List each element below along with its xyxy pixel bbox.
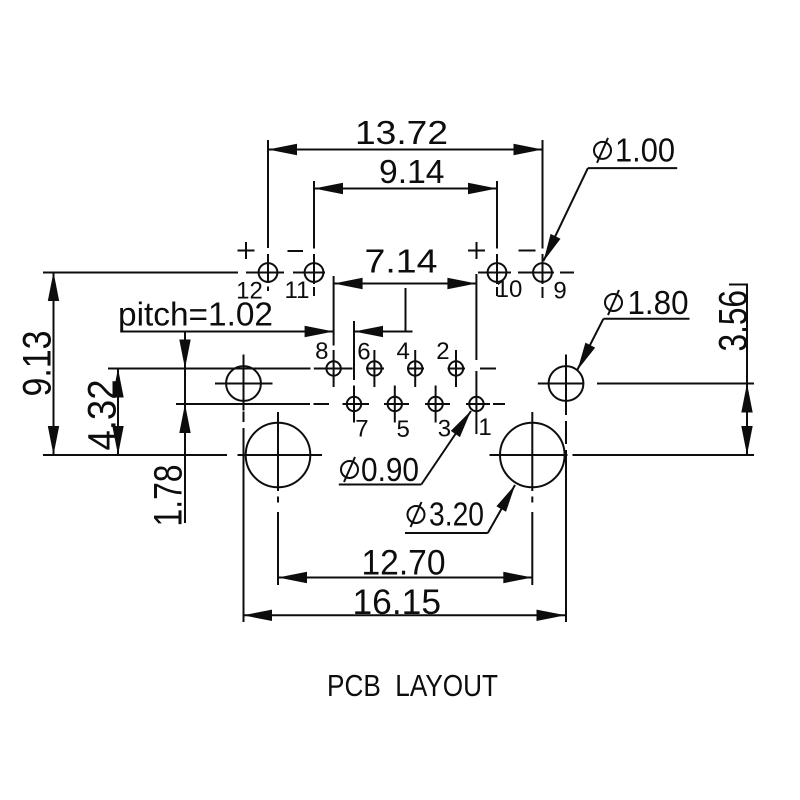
svg-text:13.72: 13.72 xyxy=(355,114,448,151)
svg-text:8: 8 xyxy=(315,338,328,365)
mounting hole right ø1.80 xyxy=(538,355,754,623)
svg-text:2: 2 xyxy=(436,338,449,365)
svg-text:5: 5 xyxy=(396,416,409,443)
pad 9 (hole ø1.00) xyxy=(533,263,552,282)
pad 5 (hole ø0.90) xyxy=(388,386,402,423)
dimension 9.14 (inner top pads) xyxy=(314,153,497,194)
svg-text:11: 11 xyxy=(285,277,310,304)
svg-text:4: 4 xyxy=(396,338,409,365)
centerline of mounting hole row (horizontal) xyxy=(43,454,754,456)
svg-text:3.20: 3.20 xyxy=(429,496,484,533)
leader label ø1.80 (side mounting holes) xyxy=(578,284,690,370)
svg-text:3: 3 xyxy=(438,415,451,442)
pad 7 (hole ø0.90) xyxy=(347,321,361,423)
pad 4 (hole ø0.90) xyxy=(408,350,422,387)
dimension 13.72 (outer top pads) xyxy=(268,114,543,155)
minus polarity mark at pad 9 xyxy=(519,250,536,252)
leader label ø0.90 (signal pads) xyxy=(339,411,471,488)
mounting hole right ø3.20 xyxy=(500,412,565,585)
pad number 7 xyxy=(355,415,368,442)
centerline pad 11 column / 9.14 extension xyxy=(313,181,315,296)
pad number 1 xyxy=(478,414,491,441)
svg-text:1.78: 1.78 xyxy=(147,465,191,527)
centerline pad 12 column / 13.72 extension xyxy=(267,140,269,291)
centerline of upper signal pad row / 4.32 extension xyxy=(108,368,496,370)
svg-text:1.80: 1.80 xyxy=(628,284,689,321)
svg-text:9.14: 9.14 xyxy=(379,153,445,190)
pad number 3 xyxy=(438,415,451,442)
connector line between 7.14 and pitch dimension xyxy=(405,288,407,332)
svg-text:7.14: 7.14 xyxy=(365,243,438,280)
pad 10 (hole ø1.00) xyxy=(488,263,507,282)
mounting hole left ø1.80 xyxy=(215,355,273,623)
svg-text:12.70: 12.70 xyxy=(362,544,446,583)
svg-text:7: 7 xyxy=(355,415,368,442)
pad number 11 xyxy=(285,277,310,304)
centerline of top pad row (horizontal) xyxy=(43,272,574,274)
pad number 5 xyxy=(396,416,409,443)
dimension 16.15 (ø1.80 hole spacing) xyxy=(243,583,566,622)
plus polarity mark at pad 10 xyxy=(468,242,485,259)
dimension 12.70 (ø3.20 hole spacing) xyxy=(278,544,532,584)
svg-text:3.56: 3.56 xyxy=(712,290,756,352)
centerline pad 9 column / 13.72 extension xyxy=(542,140,544,298)
pad number 9 xyxy=(553,278,566,305)
pad 2 (hole ø0.90) xyxy=(449,350,463,387)
title PCB LAYOUT xyxy=(327,669,498,703)
leader label ø3.20 (bottom mounting holes) xyxy=(405,485,515,533)
svg-text:4.32: 4.32 xyxy=(81,380,125,451)
svg-text:10: 10 xyxy=(496,276,523,303)
svg-text:PCB LAYOUT: PCB LAYOUT xyxy=(327,669,498,703)
dimension 7.14 (signal pad span) xyxy=(334,243,477,290)
pad number 4 xyxy=(396,338,409,365)
minus polarity mark at pad 11 xyxy=(288,250,304,252)
pad number 12 xyxy=(236,277,263,304)
svg-text:9.13: 9.13 xyxy=(16,331,60,397)
dimension 1.78 (between signal pad rows) xyxy=(147,332,191,527)
leader label ø1.00 (top pads) xyxy=(543,132,677,262)
svg-text:9: 9 xyxy=(553,278,566,305)
dimension pitch=1.02 (adjacent pad columns) xyxy=(118,296,413,338)
pad 6 (hole ø0.90) xyxy=(367,350,381,387)
pad number 8 xyxy=(315,338,328,365)
pad 3 (hole ø0.90) xyxy=(428,386,442,423)
svg-text:6: 6 xyxy=(357,339,370,366)
pad 11 (hole ø1.00) xyxy=(305,263,324,282)
centerline pad 10 column / 9.14 extension xyxy=(496,181,498,296)
svg-text:pitch=1.02: pitch=1.02 xyxy=(118,296,273,333)
svg-text:0.90: 0.90 xyxy=(361,451,419,488)
pad 1 (hole ø0.90) xyxy=(469,274,483,434)
dimension 9.13 (top pads to mounting hole row) xyxy=(16,272,60,455)
svg-text:1: 1 xyxy=(478,414,491,441)
pad number 6 xyxy=(357,339,370,366)
pad number 10 xyxy=(496,276,523,303)
svg-text:16.15: 16.15 xyxy=(353,583,442,622)
svg-text:1.00: 1.00 xyxy=(615,132,675,169)
mounting hole left ø3.20 xyxy=(246,412,311,585)
pad number 2 xyxy=(436,338,449,365)
dimension 4.32 (upper pad row to mounting hole row) xyxy=(81,369,125,456)
dimension 3.56 (ø1.80 row to mounting hole row) xyxy=(712,284,756,456)
centerline of lower signal pad row / 1.78 extension xyxy=(176,403,505,405)
pad 8 (hole ø0.90) xyxy=(326,276,340,387)
plus polarity mark at pad 12 xyxy=(238,242,255,259)
pad 12 (hole ø1.00) xyxy=(259,263,278,282)
